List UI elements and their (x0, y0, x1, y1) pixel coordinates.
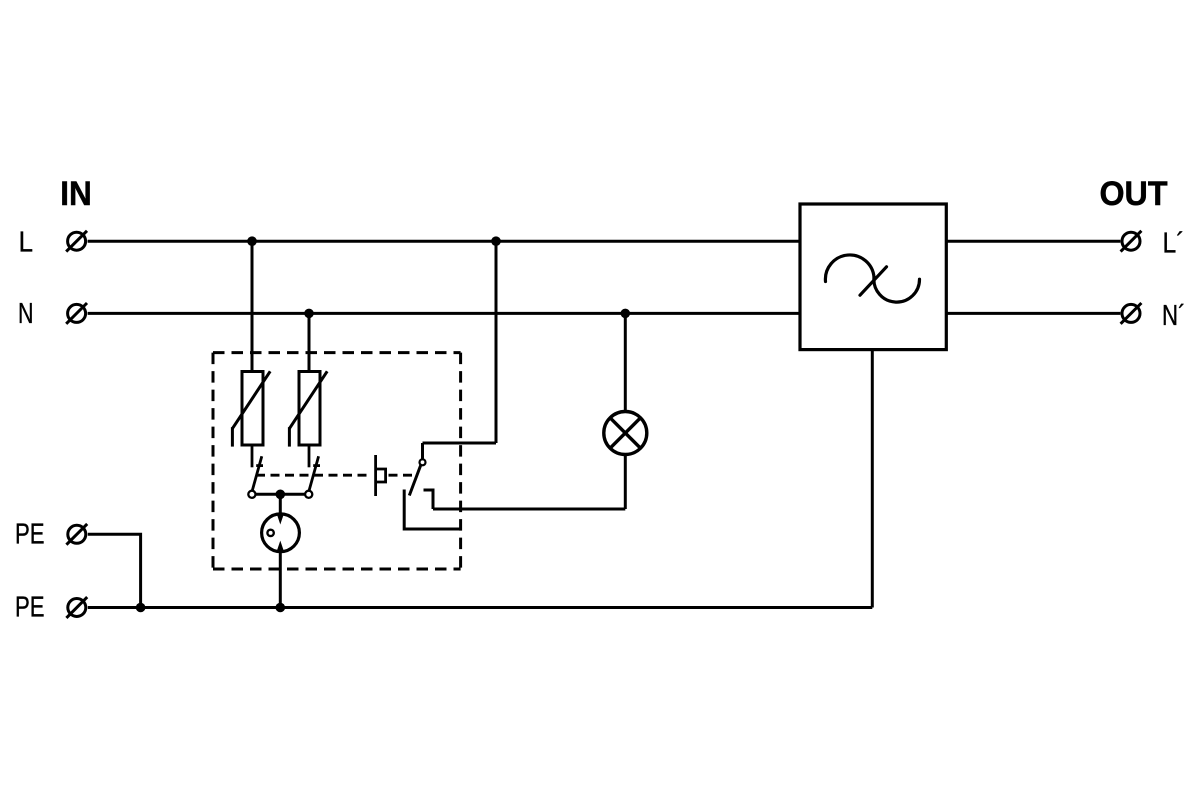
terminal L (66, 231, 87, 252)
wire indicator to PE bus (279, 551, 282, 608)
svg-text:L´: L´ (1163, 228, 1185, 260)
varistor RV2 (289, 371, 327, 446)
sine symbol inside U1 (825, 255, 919, 302)
svg-text:PE: PE (15, 591, 45, 623)
terminal L' (1121, 231, 1142, 252)
junction node L / varistor 1 (247, 236, 257, 246)
changeover switch S1 lower throw (404, 490, 460, 530)
terminal PE upper (66, 524, 87, 545)
junction node PE jumper (136, 603, 146, 613)
varistor RV1 (232, 371, 270, 446)
svg-text:PE: PE (15, 518, 45, 550)
junction node contact bus / indicator (276, 490, 286, 500)
status indicator (arrows + circle + dot) (262, 494, 300, 551)
wire L bus (88, 240, 800, 243)
terminal PE lower (66, 597, 87, 618)
wire lamp drop lower (624, 455, 627, 509)
junction node N / lamp (621, 309, 631, 319)
thermal disconnect F1 (stub, tick, blade, contact) (248, 445, 263, 498)
changeover switch S1 feed wires (423, 241, 497, 459)
svg-text:L: L (19, 227, 34, 259)
terminal N' (1121, 303, 1142, 324)
terminal N (66, 303, 87, 324)
contact bus wire (256, 493, 305, 496)
lamp H1 (604, 412, 647, 455)
filter box U1 (800, 204, 946, 350)
wire PE bus (88, 606, 873, 609)
mechanical linkage (dashed) (256, 474, 415, 477)
svg-text:N´: N´ (1162, 300, 1186, 332)
thermal actuator symbol (376, 455, 386, 496)
changeover switch S1 blade (409, 465, 421, 496)
wire N' out (946, 312, 1120, 315)
wire filter box to PE bus (871, 350, 874, 608)
wire lamp drop upper (624, 313, 627, 411)
wire varistor 2 drop from N (308, 313, 311, 371)
changeover switch S1 upper throw (424, 490, 434, 509)
wire N bus (88, 312, 800, 315)
wire L' out (946, 240, 1120, 243)
junction node L / switch feed (491, 236, 501, 246)
svg-text:IN: IN (60, 175, 91, 213)
wire varistor 1 drop from L (251, 241, 254, 371)
thermal disconnect F2 (stub, tick, blade, contact) (305, 445, 320, 498)
junction node PE / indicator (276, 603, 286, 613)
protection module enclosure (dashed box) (213, 353, 461, 569)
changeover switch S1 pivot contact (420, 459, 426, 465)
wire PE jumper (88, 534, 141, 607)
junction node N / varistor 2 (304, 309, 314, 319)
svg-text:N: N (18, 298, 34, 330)
wire lamp feed (433, 508, 625, 511)
svg-text:OUT: OUT (1100, 175, 1168, 213)
